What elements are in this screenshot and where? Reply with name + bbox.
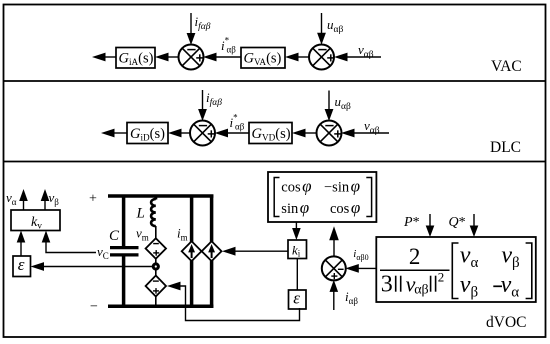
wire: summer up to matrix — [333, 239, 335, 257]
arrowhead into summer2 right — [334, 53, 348, 62]
svg-text:ε: ε — [18, 255, 25, 274]
svg-text:P*: P* — [403, 215, 420, 230]
block GiA(s) — [116, 48, 155, 69]
wire: ifab drop into summerD1 — [202, 90, 204, 110]
voltage matrix left bracket — [452, 243, 458, 299]
svg-text:αβ: αβ — [414, 283, 428, 298]
wire: vab into summer2 — [345, 56, 381, 58]
svg-text:sinφ: sinφ — [281, 198, 309, 217]
svg-text:ε: ε — [293, 289, 300, 308]
arrowhead into k_i — [292, 228, 301, 240]
svg-text:DLC: DLC — [490, 139, 521, 156]
arrowhead down into summerD2 — [325, 109, 334, 121]
arrowhead into k_v right input — [42, 231, 51, 243]
wire: k_i to current source control — [234, 250, 289, 252]
svg-text:C: C — [109, 228, 120, 244]
wire: summerD2 to GVD — [303, 132, 317, 134]
wire: v_C tap up to k_v — [46, 242, 96, 253]
arrowhead P* — [426, 226, 435, 238]
wire: uab drop into summerD2 — [328, 91, 330, 111]
arrowhead into k_v left input — [17, 231, 26, 243]
wire: summer2 to GVA — [296, 56, 310, 58]
right source branch bottom lead — [210, 261, 214, 308]
capacitor C bottom lead — [122, 256, 126, 307]
arrowhead down into summer1 — [187, 33, 196, 45]
matrix left bracket — [274, 178, 279, 217]
capacitor C bottom plate — [110, 253, 139, 256]
arrowhead into summerD1 right — [215, 129, 229, 138]
svg-text:2: 2 — [409, 244, 421, 269]
voltage matrix right bracket — [526, 243, 532, 299]
fraction bar — [380, 269, 450, 271]
controlled current source im (diamond) — [182, 241, 202, 261]
wire: summer1 to GiA — [166, 56, 179, 58]
block k_i — [288, 240, 307, 259]
block power calculation (big box) — [376, 237, 536, 302]
summing junction VAC-2 — [309, 45, 334, 70]
wire: v_alpha output up — [23, 200, 25, 210]
arrowhead v_beta — [41, 189, 50, 201]
wire: vm to node — [155, 259, 157, 264]
summing junction DLC-1 — [190, 121, 215, 146]
arrowhead v_alpha — [19, 189, 28, 201]
svg-text:Q*: Q* — [449, 215, 466, 230]
svg-text:VAC: VAC — [491, 58, 522, 75]
svg-text:L: L — [136, 206, 145, 222]
arrowhead up into summer bottom — [330, 280, 339, 292]
arrowhead into epsilon1 — [31, 262, 45, 271]
arrowhead into lower diamond control — [167, 282, 181, 291]
wire: ifab drop into summer1 — [190, 13, 192, 34]
arrowhead down into summer2 — [317, 33, 326, 45]
arrowhead into GVD — [292, 129, 306, 138]
block rotation matrix — [268, 172, 376, 222]
block epsilon2 — [289, 290, 307, 309]
wire: bottom rail (thick) — [108, 305, 213, 309]
wire: Q* down into box — [473, 214, 475, 226]
arrowhead into right current source control — [222, 247, 236, 256]
wire: VAC output line — [103, 56, 116, 58]
arrowhead into summerD2 right — [341, 129, 355, 138]
svg-text:3: 3 — [381, 272, 393, 298]
wire: node to lower diamond — [155, 269, 157, 276]
wire: DLC output line — [112, 132, 127, 134]
wire: uab drop into summer2 — [321, 13, 323, 34]
svg-text:+: + — [89, 192, 97, 207]
wire: vab into summerD2 — [352, 132, 389, 134]
arrowhead down into summerD1 — [198, 109, 207, 121]
wire: iab up into summer — [333, 292, 335, 311]
matrix entry -v_alpha — [493, 285, 502, 287]
inductor L lead stub — [154, 195, 157, 200]
wire: summerD1 to GiD — [179, 132, 191, 134]
capacitor C top lead — [122, 195, 126, 248]
arrowhead up into matrix — [329, 226, 339, 240]
svg-text:cosφ: cosφ — [330, 198, 360, 217]
arrowhead Q* — [470, 226, 479, 238]
wire: k_i down to epsilon2 — [296, 259, 298, 291]
capacitor C top plate — [110, 246, 139, 249]
node (junction circle) — [153, 264, 158, 269]
wire: coil to vm diamond — [155, 226, 157, 239]
wire: top rail (thick) — [108, 194, 213, 198]
svg-text:−: − — [90, 300, 98, 315]
wire: GVA to summer1 — [214, 56, 241, 58]
block GiD(s) — [127, 123, 168, 144]
right source branch top lead — [210, 195, 214, 243]
controlled current source im branch top lead — [190, 195, 194, 243]
wire: v_beta output up — [44, 200, 46, 210]
block epsilon1 — [13, 256, 31, 277]
wire: big box to summer — [356, 267, 376, 269]
wire: lower diamond to bottom rail — [155, 297, 157, 307]
wire: matrix down to k_i — [295, 222, 297, 229]
wire: node to epsilon1 — [44, 266, 153, 268]
summing junction dVOC — [322, 256, 346, 280]
summing junction VAC-1 — [179, 45, 204, 70]
arrowhead into GiD — [168, 129, 182, 138]
controlled voltage source vm (diamond) — [146, 238, 166, 258]
matrix right bracket — [366, 178, 371, 217]
block GVA(s) — [241, 48, 285, 69]
wire: GVD to summerD1 — [226, 132, 250, 134]
arrowhead into GiA — [155, 53, 169, 62]
arrowhead into summer1 right — [203, 53, 217, 62]
inductor L coil — [151, 199, 156, 226]
block GVD(s) — [249, 123, 292, 144]
controlled voltage source lower (diamond) — [146, 276, 166, 297]
wire: epsilon2 feedback to lower diamond — [179, 286, 300, 321]
summing junction DLC-2 — [317, 121, 342, 146]
wire: P* down into box — [429, 214, 431, 226]
controlled current source right (diamond) — [202, 241, 222, 261]
svg-text:−sinφ: −sinφ — [324, 177, 360, 196]
arrowhead into summer right — [345, 264, 359, 273]
arrowhead: DLC output — [101, 129, 115, 138]
svg-text:2: 2 — [438, 269, 445, 284]
svg-text:cosφ: cosφ — [281, 177, 311, 196]
arrowhead into GVA — [285, 53, 299, 62]
divider VAC/DLC — [4, 80, 546, 82]
controlled current source im bottom lead — [190, 261, 194, 308]
divider DLC/dVOC — [4, 161, 546, 163]
arrowhead: VAC output — [92, 53, 106, 62]
svg-text:dVOC: dVOC — [486, 314, 526, 331]
wire: epsilon1 up to k_v — [20, 242, 22, 256]
block k_v — [11, 210, 60, 231]
